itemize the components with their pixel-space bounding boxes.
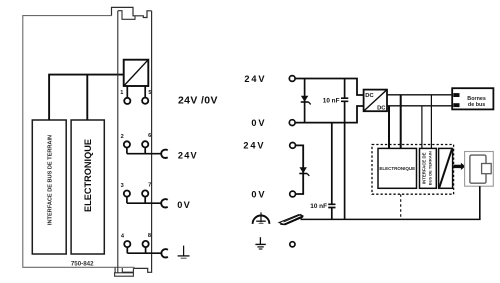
svg-text:10 nF: 10 nF [310,203,327,210]
terminal 1 [124,98,130,104]
terminal 5 [142,98,148,104]
clamp contact arc row 4-8 [161,249,168,257]
terminal 0V field side [290,191,296,197]
wire 24V rail [295,79,363,96]
suppressor diode D1 branch [304,79,306,123]
electronics box [71,120,104,254]
svg-text:0V: 0V [251,118,266,128]
wire internal supply left drop [48,75,50,120]
capacitor C2 plates [328,204,335,207]
foot slot [114,267,116,272]
terminal stem 6 [144,147,146,153]
interface inner box [420,148,437,188]
wire interface feed 2 [430,95,432,149]
terminal 6 [142,141,148,147]
bus terminal pin top [453,93,459,97]
module housing inner step [118,11,135,20]
DC DC converter diagonal [364,90,386,110]
wire DC output plus [387,94,452,96]
clamp contact arc row 3-7 [161,199,168,207]
terminal 3 [124,191,130,197]
svg-text:ELECTRONIQUE: ELECTRONIQUE [83,139,93,212]
terminal stem 2 [126,148,128,154]
wire row 3-7 [127,202,162,204]
terminal 4 [124,241,130,247]
bus connector inner diagonal [439,149,452,187]
DC DC converter box [364,90,387,112]
terminal stem 5 [144,86,146,98]
wire electronics feed 1 [388,106,390,149]
terminal stem 8 [145,247,147,253]
rail contact symbol [253,212,270,224]
svg-text:24V /0V: 24V /0V [178,96,218,107]
bus terminals box [452,88,493,109]
svg-text:2: 2 [121,134,124,140]
terminal 8 [143,241,149,247]
bus terminal pin bottom [453,103,459,107]
svg-text:BUS DE TERRAIN: BUS DE TERRAIN [428,151,433,185]
terminal stem 7 [144,197,146,204]
capacitor C1 plates [341,98,348,101]
svg-text:Bornes: Bornes [467,96,486,102]
module rail foot [115,273,134,276]
foot step [122,268,133,272]
wire internal supply bus [48,74,124,76]
svg-text:DC: DC [365,93,374,99]
electronics dashed enclosure [372,145,454,195]
svg-text:10 nF: 10 nF [323,98,340,105]
svg-text:6: 6 [148,133,151,139]
terminal 24V field side [290,143,296,149]
terminal 0V supply [289,120,295,126]
capacitor C1 branch [344,79,346,220]
wire row 2-6 [127,153,162,155]
wire electronics feed 2 [400,95,402,149]
power jumper contact symbol [279,214,303,224]
svg-text:24V: 24V [243,141,265,151]
module right wall with bottom-right foot [133,11,151,273]
earth symbol at module [178,246,190,259]
terminal 2 [124,141,130,147]
wire dashed electronics to shield [400,194,402,219]
terminal 24V supply [289,76,295,82]
terminal stem 1 [126,86,128,98]
svg-text:0V: 0V [251,189,266,199]
coupler enclosure outline [23,16,135,268]
svg-text:750-842: 750-842 [71,260,94,267]
electronics inner box [378,148,417,188]
capacitor C2 branch [331,123,333,220]
fieldbus connector outer box [465,152,494,187]
terminal 7 [142,190,148,196]
svg-text:ELECTRONIQUE: ELECTRONIQUE [379,166,415,171]
wire interface feed 1 [421,106,423,149]
svg-text:5: 5 [148,90,151,96]
svg-text:24V: 24V [244,74,266,84]
suppressor diode D1 [301,96,311,105]
fieldbus connector nose [482,164,492,174]
fieldbus connector body [470,155,486,183]
svg-text:1: 1 [120,90,123,96]
terminal stem 3 [126,197,128,204]
wire field side loop [296,145,304,194]
fieldbus interface box [32,120,66,254]
svg-text:0V: 0V [177,200,191,210]
wire DC output minus [387,105,452,107]
power feed connector box [124,60,149,86]
wire row 4-8 [127,252,162,254]
module left wall [117,11,119,273]
wire shield bottom [301,218,481,220]
bus connector inner box [439,148,453,188]
module housing top profile [112,7,152,17]
svg-text:de bus: de bus [468,102,485,108]
suppressor diode D2 [299,167,309,176]
svg-text:8: 8 [148,233,151,239]
terminal stem 4 [126,247,128,253]
svg-text:24V: 24V [178,150,198,160]
svg-text:DC: DC [377,105,386,111]
svg-text:7: 7 [148,183,151,189]
shield terminal circle [290,242,295,247]
arrow to fieldbus connector [454,165,461,168]
svg-text:3: 3 [121,183,124,189]
svg-text:INTERFACE DE: INTERFACE DE [422,152,427,184]
svg-text:INTERFACE DE BUS DE TERRAIN: INTERFACE DE BUS DE TERRAIN [48,135,54,225]
clamp contact arc row 2-6 [161,150,168,158]
power feed connector diagonal [124,60,148,85]
wire connector shield drop [479,186,481,219]
wire 0V rail [295,106,363,123]
earth symbol bottom left [255,237,265,249]
wire internal supply right drop [86,75,88,120]
